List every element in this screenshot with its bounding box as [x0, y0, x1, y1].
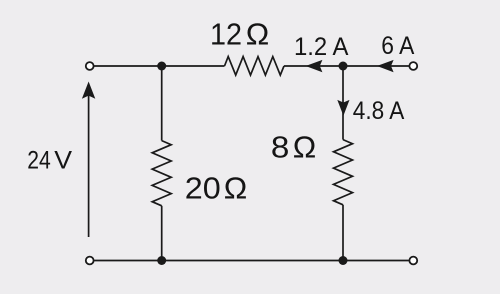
- resistor R1 12 ohm: [225, 57, 285, 76]
- node C junction dot: [157, 256, 166, 265]
- svg-text:Ω: Ω: [224, 170, 248, 205]
- wire bottom: left terminal to node C: [94, 260, 162, 262]
- wire: resistor R3 down to node D: [342, 205, 344, 261]
- svg-text:4.8 A: 4.8 A: [353, 97, 405, 125]
- resistor R3 8 ohm: [334, 140, 353, 205]
- svg-text:Ω: Ω: [246, 16, 270, 51]
- wire: voltage arrow shaft V1: [88, 96, 90, 238]
- wire bottom: node C to node D: [162, 260, 343, 262]
- node B junction dot: [339, 62, 348, 71]
- wire: resistor R2 down to node C: [161, 206, 163, 261]
- svg-text:1.2 A: 1.2 A: [294, 33, 349, 61]
- svg-text:6 A: 6 A: [381, 32, 414, 60]
- arrowhead: current 6 A pointing left: [377, 60, 394, 72]
- terminal bottom-right: [409, 257, 417, 265]
- wire: node B down to resistor R3: [342, 66, 344, 140]
- svg-text:V: V: [54, 146, 72, 174]
- svg-text:12: 12: [210, 16, 242, 51]
- terminal top-right: [409, 62, 417, 70]
- wire bottom-right: node D to right terminal: [343, 260, 409, 262]
- svg-text:8: 8: [271, 129, 290, 164]
- svg-text:24: 24: [27, 146, 51, 174]
- wire top: resistor R1 to node B: [284, 65, 343, 67]
- arrowhead: current 1.2 A pointing left: [306, 60, 323, 72]
- terminal bottom-left: [86, 257, 94, 265]
- svg-text:20: 20: [185, 170, 221, 205]
- node D junction dot: [339, 256, 348, 265]
- svg-text:Ω: Ω: [293, 129, 317, 164]
- wire: node A down to resistor R2: [161, 66, 163, 141]
- arrowhead: current 4.8 A pointing down: [337, 100, 349, 116]
- wire top: node A to resistor R1: [162, 65, 225, 67]
- arrowhead: source arrow 24 V pointing up: [82, 82, 95, 99]
- wire top-left: left terminal to node A: [94, 65, 162, 67]
- terminal top-left: [86, 62, 94, 70]
- resistor R2 20 ohm: [152, 141, 171, 206]
- node A junction dot: [157, 62, 166, 71]
- wire top-right: node B to right terminal: [343, 65, 409, 67]
